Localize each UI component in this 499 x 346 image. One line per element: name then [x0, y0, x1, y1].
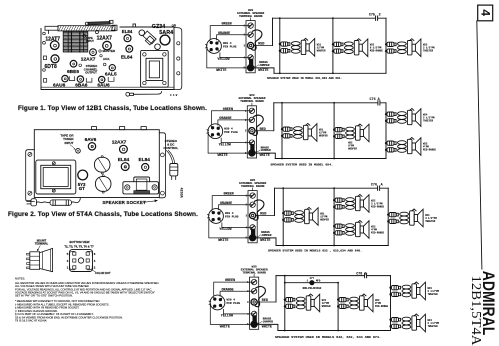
sidebar rule — [477, 21, 482, 269]
wire woofer riser — [282, 187, 284, 246]
speaker W23 tweeter — [385, 39, 435, 57]
svg-text:C77: C77 — [310, 277, 315, 280]
wire woofer riser — [279, 17, 281, 74]
power transformer T8 — [36, 160, 76, 194]
svg-text:TWEETER: TWEETER — [423, 50, 434, 53]
stereo and dc control cable — [163, 139, 182, 199]
svg-text:GZ34: GZ34 — [152, 24, 165, 30]
svg-text:AUX.: AUX. — [103, 57, 110, 61]
speaker W21 woofer — [284, 294, 331, 312]
svg-text:SPEAKER SYSTEM USED IN MODELS: SPEAKER SYSTEM USED IN MODELS 642, 643, … — [275, 336, 381, 339]
tube V4 12AX7 — [81, 55, 110, 63]
wire top bus with capacitor C78 — [276, 272, 391, 277]
notes block — [15, 276, 159, 322]
capacitor C76 — [371, 184, 384, 188]
svg-text:TERMINAL: TERMINAL — [35, 242, 49, 246]
svg-text:GT: GT — [79, 186, 85, 191]
speaker W24 tweeter — [389, 314, 439, 332]
tube V9 rectifier GZ34/5AR4 — [152, 23, 177, 45]
svg-text:TWEETER: TWEETER — [428, 325, 439, 328]
svg-text:SPEAKER SYSTEM USED IN MODEL 6: SPEAKER SYSTEM USED IN MODEL 654. — [271, 163, 334, 166]
tube V6 6DT8 — [45, 55, 60, 70]
wire woofer riser — [281, 102, 283, 160]
wire top bus — [273, 16, 387, 20]
wire bottom bus — [278, 330, 391, 332]
tube V1 6AV6 — [85, 137, 97, 150]
power transformer T1 — [141, 50, 169, 87]
svg-text:Figure 2. Top View of 5T4A Ch: Figure 2. Top View of 5T4A Chassis, Tube… — [8, 211, 198, 218]
svg-text:SPEAKER SOCKET: SPEAKER SOCKET — [102, 200, 146, 205]
svg-text:3 4 W: 3 4 W — [170, 94, 178, 97]
speaker W23 mid-range — [385, 138, 437, 156]
svg-text:EL84: EL84 — [139, 157, 151, 163]
capacitor C76 — [370, 98, 381, 102]
svg-text:INPUT: INPUT — [65, 141, 74, 145]
svg-text:12AX7: 12AX7 — [81, 56, 96, 62]
svg-text:C78 2: C78 2 — [356, 272, 366, 276]
terminal board W23 — [206, 9, 273, 73]
svg-text:EL84: EL84 — [121, 55, 133, 61]
svg-text:SPEAKER SYSTEM USED IN MODELS: SPEAKER SYSTEM USED IN MODELS 632 , 633,… — [268, 249, 362, 252]
dial rod below chassis — [126, 92, 178, 97]
svg-text:MID-RANGE: MID-RANGE — [371, 231, 384, 234]
chassis 5T4A outline — [26, 127, 166, 202]
speaker W22 mid-range — [333, 195, 385, 213]
wire top bus — [275, 186, 389, 190]
wire red riser — [275, 276, 277, 302]
wire tweeter riser — [385, 18, 387, 73]
speaker W22 mid-range — [337, 294, 389, 312]
svg-text:MID-RANGE: MID-RANGE — [370, 50, 383, 53]
stereo channel output jacks — [79, 63, 106, 74]
tube V8 6AL5 — [105, 65, 117, 78]
wire red riser — [272, 18, 274, 45]
wire mid riser — [332, 17, 334, 74]
speaker W21 woofer — [279, 38, 326, 56]
svg-text:42G3A: 42G3A — [178, 188, 182, 199]
svg-text:CONTROL: CONTROL — [163, 146, 178, 150]
capacitor C77 non-polarized — [285, 277, 338, 290]
wire white to bus — [256, 238, 276, 246]
wire tweeter riser — [385, 103, 387, 159]
svg-text:TWEETER: TWEETER — [428, 293, 439, 296]
wire mid riser — [337, 282, 339, 332]
chassis 12B1 outline — [41, 24, 182, 90]
svg-text:EL84: EL84 — [122, 29, 133, 34]
svg-text:6AU6: 6AU6 — [97, 83, 110, 89]
tube V4 EL84 — [139, 157, 151, 171]
electrolytic capacitor cans — [94, 156, 111, 194]
wire bottom bus — [275, 158, 386, 160]
wire red riser — [273, 103, 275, 131]
wire tweeter riser — [390, 276, 392, 331]
tube V3 EL84 — [118, 157, 130, 171]
fuse holder — [139, 30, 160, 50]
svg-text:12B1,5T4A: 12B1,5T4A — [468, 276, 483, 346]
svg-text:Figure 1. Top View of 12B1 Ch: Figure 1. Top View of 12B1 Chassis, Tube… — [18, 105, 207, 112]
svg-text:T8 IS 16.3 VAC AT 410-64.: T8 IS 16.3 VAC AT 410-64. — [15, 319, 47, 323]
master control — [90, 49, 116, 56]
speaker W21 woofer — [281, 124, 328, 142]
svg-text:WOOFER: WOOFER — [348, 148, 357, 151]
svg-text:NOTES:: NOTES: — [15, 276, 25, 280]
wire tweeter riser — [387, 188, 389, 245]
wire bottom bus — [276, 245, 388, 247]
tube V1 12AT7 — [45, 37, 60, 50]
svg-text:12AX7: 12AX7 — [112, 139, 127, 145]
wire red riser — [274, 188, 276, 215]
power cord and plug — [27, 198, 80, 206]
transformer bottom view socket — [64, 240, 111, 275]
svg-text:6AL5: 6AL5 — [105, 71, 117, 77]
tube V3 EL84 — [122, 29, 133, 42]
wire mid riser — [333, 102, 335, 160]
tube V5 5Y3GT — [78, 170, 88, 191]
speaker W23 tweeter — [389, 282, 439, 300]
IF transformer can — [63, 32, 88, 53]
svg-text:MID-RANGE: MID-RANGE — [423, 148, 436, 151]
speaker W21 woofer — [282, 208, 329, 226]
svg-text:C76 A: C76 A — [370, 98, 381, 102]
page number box — [478, 5, 493, 21]
plug W20 wire labels — [216, 23, 269, 73]
wire white to bus — [254, 68, 274, 73]
plug W20 wire labels — [218, 108, 271, 158]
svg-text:4: 4 — [478, 9, 492, 16]
svg-text:WOOFER: WOOFER — [319, 134, 328, 137]
tape or tuner input jack — [60, 134, 80, 154]
svg-text:6BA6: 6BA6 — [75, 83, 88, 89]
svg-text:TWEETER: TWEETER — [423, 119, 434, 122]
svg-text:INPUT: INPUT — [86, 39, 94, 43]
svg-text:12AX7: 12AX7 — [97, 35, 113, 41]
speaker socket label — [102, 200, 158, 206]
antenna rod — [85, 20, 113, 25]
tube V5 EL84 — [121, 45, 133, 60]
svg-text:TWEETER: TWEETER — [425, 220, 436, 223]
svg-text:SET IN "PH" OR "TU-STE" SWITCH: SET IN "PH" OR "TU-STE" SWITCH POSITION. — [15, 293, 73, 297]
wire white to bus — [256, 153, 276, 158]
svg-text:WOOFER: WOOFER — [322, 305, 331, 308]
speaker mount terminal detail — [27, 239, 53, 272]
tubes 6AU6 6BA6 6AU6 — [53, 75, 114, 88]
svg-text:NON-POLARIZED: NON-POLARIZED — [303, 287, 322, 290]
wire white to bus — [258, 324, 278, 330]
svg-text:MFD: MFD — [316, 280, 321, 283]
speaker W23 mid-range — [333, 221, 385, 239]
speaker W22 mid-range — [332, 39, 384, 57]
svg-text:MID-RANGE: MID-RANGE — [371, 205, 384, 208]
tube V7 6BE6 — [67, 60, 79, 75]
svg-text:MASTER: MASTER — [103, 49, 117, 53]
capacitor C75 — [369, 14, 381, 18]
terminal board W25 — [209, 265, 276, 329]
wire mid riser — [333, 187, 335, 246]
plug W20 wire labels — [220, 279, 273, 329]
tape input jack — [83, 30, 99, 43]
tuning coil bar — [45, 25, 117, 33]
terminal board W23 — [207, 94, 274, 158]
wire bottom bus — [274, 72, 386, 74]
svg-text:6AV6: 6AV6 — [85, 137, 97, 143]
svg-text:2: 2 — [379, 14, 381, 18]
svg-text:MID-RANGE: MID-RANGE — [375, 305, 388, 308]
wire woofer riser — [284, 275, 286, 332]
svg-text:T2, T3, T4, T5, T6 & T7: T2, T3, T4, T5, T6 & T7 — [64, 245, 94, 249]
plug W20 wire labels — [218, 193, 271, 243]
tube V2 12AX7 — [97, 35, 113, 50]
svg-text:OUTPUT: OUTPUT — [85, 71, 97, 75]
speaker socket — [123, 177, 159, 194]
svg-text:SPEAKER SYSTEM USED IN MODEL: SPEAKER SYSTEM USED IN MODEL 661,663 AND… — [267, 77, 342, 80]
svg-text:COLOR DOT: COLOR DOT — [95, 271, 111, 275]
speaker W22 mid-range — [333, 124, 369, 151]
svg-text:C76: C76 — [371, 184, 377, 188]
speaker W24 tweeter — [385, 109, 435, 127]
wire top bus — [274, 101, 386, 105]
svg-text:C75: C75 — [369, 14, 375, 18]
terminal board W25 — [208, 179, 275, 243]
svg-text:6AU6: 6AU6 — [53, 83, 66, 89]
svg-text:6BE6: 6BE6 — [67, 69, 79, 75]
svg-text:WOOFER: WOOFER — [320, 218, 329, 221]
speaker W24 tweeter — [387, 209, 437, 227]
svg-text:WOOFER: WOOFER — [317, 49, 326, 52]
svg-text:EL84: EL84 — [118, 157, 130, 163]
svg-text:BOTTOM VIEW: BOTTOM VIEW — [70, 240, 90, 244]
svg-text:6DT8: 6DT8 — [45, 64, 57, 70]
tube V2 12AX7 — [112, 139, 128, 153]
